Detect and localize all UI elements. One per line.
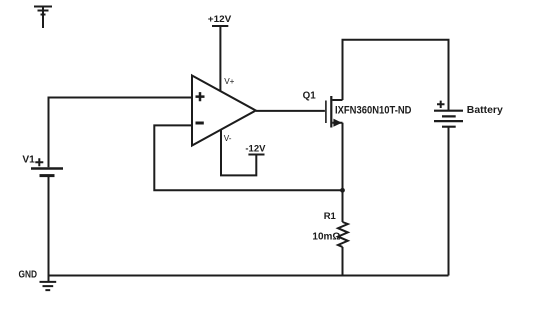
svg-text:Q1: Q1 — [303, 90, 317, 101]
svg-text:R1: R1 — [324, 211, 337, 222]
svg-text:-12V: -12V — [245, 143, 266, 154]
svg-text:IXFN360N10T-ND: IXFN360N10T-ND — [335, 105, 412, 117]
svg-text:V1: V1 — [22, 155, 35, 166]
svg-text:Battery: Battery — [467, 105, 504, 116]
svg-text:10mΩ: 10mΩ — [312, 232, 340, 243]
svg-text:V-: V- — [224, 134, 232, 143]
svg-text:+12V: +12V — [208, 14, 232, 25]
svg-text:GND: GND — [19, 270, 38, 281]
svg-text:V+: V+ — [224, 77, 234, 86]
